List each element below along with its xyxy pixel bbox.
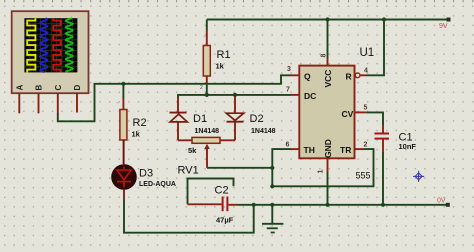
svg-text:RV1: RV1 (178, 165, 199, 177)
svg-text:1k: 1k (132, 130, 141, 139)
wire: 9V rail across top (207, 19, 449, 21)
node: junction pin4 drop on 9V rail (382, 17, 386, 21)
U1 pin 2 TR (355, 148, 365, 150)
svg-text:R1: R1 (217, 49, 231, 61)
svg-text:TR: TR (340, 145, 351, 155)
wire: discharge net (pin 7) horizontal (178, 95, 291, 98)
svg-text:CV: CV (342, 109, 354, 119)
wire: rail drop to R1 top (206, 20, 208, 31)
oscilloscope screen (24, 18, 77, 72)
svg-text:B: B (35, 85, 44, 91)
U1 pin 5 CV (355, 111, 367, 113)
svg-text:6: 6 (286, 142, 290, 149)
svg-text:GND: GND (323, 139, 333, 158)
svg-text:DC: DC (304, 91, 316, 101)
node: junction R2 top on Q net (121, 82, 125, 86)
svg-text:7: 7 (286, 87, 290, 94)
oscilloscope pin B (38, 93, 40, 113)
U1 pin 1 GND (327, 158, 329, 172)
wire: rail drop to 555 VCC pin 8 (327, 20, 329, 58)
power terminal 0V (437, 197, 450, 207)
node: junction TR link on TH column (270, 184, 274, 188)
oscilloscope trace channel D (green sine wave) (66, 18, 73, 72)
potentiometer RV1 (192, 137, 220, 167)
svg-text:LED-AQUA: LED-AQUA (139, 181, 176, 188)
svg-text:2: 2 (364, 142, 368, 149)
sheet edge tick marks along top (5, 0, 473, 2)
wire: RV1 wiper to TH node (207, 167, 272, 169)
oscilloscope trace channel B (blue sine wave) (40, 18, 47, 72)
diode D1 (1N4148, cathode up) (170, 97, 193, 140)
node: junction LED return on ground rail (252, 203, 256, 207)
svg-text:10nF: 10nF (399, 142, 417, 151)
svg-text:TH: TH (304, 145, 315, 155)
capacitor C2 (47uF) (188, 197, 239, 212)
svg-text:4: 4 (364, 68, 368, 75)
svg-text:2: 2 (200, 85, 203, 91)
svg-text:R2: R2 (133, 117, 147, 129)
svg-text:8: 8 (321, 54, 328, 58)
LED D3 (111, 140, 137, 200)
op-amp/timer U1 (555) body (299, 66, 354, 159)
wire: node column to 555 TR (pin 2) (272, 149, 373, 186)
node: junction D2 anode on pin7 net (233, 93, 237, 97)
svg-text:C2: C2 (215, 185, 229, 197)
wire: C2 left plate to TH/TR node (188, 179, 234, 205)
oscilloscope body (12, 11, 89, 93)
U1 pin 6 TH (291, 148, 299, 150)
resistor R2 (116, 98, 127, 164)
oscilloscope pin D (76, 93, 78, 112)
node: junction R1 bottom on pin7 net (205, 93, 209, 97)
svg-text:VCC: VCC (323, 70, 333, 88)
oscilloscope trace channel A (yellow square wave) (27, 18, 35, 72)
diode D2 (1N4148, cathode down) (220, 95, 244, 140)
power terminal 9V (439, 18, 451, 31)
origin marker (blue crosshair) (413, 171, 424, 182)
U1 pin 4 R (with inversion circle) (355, 73, 366, 78)
wire: 555 GND pin 1 to ground rail (327, 172, 329, 205)
wire: rail drop to 555 R pin 4 (366, 20, 384, 76)
svg-text:0V: 0V (437, 197, 446, 204)
oscilloscope pin C (57, 93, 59, 114)
svg-text:Q: Q (304, 71, 311, 81)
node: junction C1 on ground rail (381, 203, 385, 207)
U1 pin 8 VCC (327, 58, 329, 66)
svg-text:9V: 9V (439, 23, 448, 30)
svg-text:555: 555 (356, 171, 371, 181)
wire: scope channel C to 555 Q output (pin 3) and R2 top (58, 75, 291, 121)
ground symbol (262, 205, 283, 233)
wire: 555 TH (pin 6) to node column (272, 149, 291, 186)
wire: C1 bottom to ground rail (382, 152, 384, 205)
wire: R1 bottom to pin7 net (206, 85, 208, 95)
svg-text:U1: U1 (360, 47, 375, 59)
svg-text:C: C (54, 85, 63, 91)
svg-text:R: R (346, 71, 352, 81)
wire: 555 CV pin 5 to C1 top (366, 112, 383, 125)
wire: R2 top stub (122, 84, 124, 98)
node: junction wiper wire on TH column (270, 166, 274, 170)
svg-text:1N4148: 1N4148 (195, 128, 220, 135)
resistor R1 (200, 30, 210, 91)
svg-text:D: D (73, 85, 82, 91)
svg-text:D1: D1 (193, 113, 207, 125)
capacitor C1 (10nF) (375, 125, 390, 152)
svg-text:1N4148: 1N4148 (251, 128, 276, 135)
oscilloscope trace channel C (red square wave) (53, 18, 60, 72)
svg-text:5: 5 (364, 105, 368, 112)
svg-text:D2: D2 (250, 113, 264, 125)
svg-text:1: 1 (318, 170, 325, 174)
U1 pin 3 Q (291, 74, 299, 76)
svg-text:A: A (15, 85, 24, 91)
node: junction VCC drop on 9V rail (325, 17, 329, 21)
wire: ground rail across bottom (238, 204, 448, 206)
U1 pin 7 DC (291, 94, 299, 96)
node: junction ground symbol on ground rail (270, 203, 274, 207)
wire: D3 cathode to ground rail (124, 200, 254, 233)
svg-text:5k: 5k (188, 146, 197, 155)
svg-text:D3: D3 (139, 168, 153, 180)
svg-text:1k: 1k (216, 62, 225, 71)
svg-text:3: 3 (287, 66, 291, 73)
oscilloscope pin A (18, 93, 20, 113)
svg-text:47µF: 47µF (216, 216, 234, 225)
node: junction 555 GND on ground rail (325, 203, 329, 207)
